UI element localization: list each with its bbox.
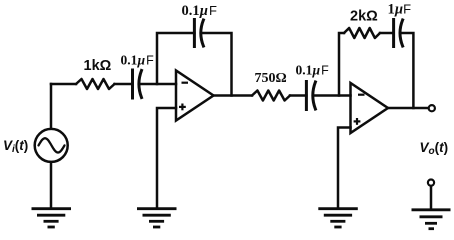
svg-text:1kΩ: 1kΩ xyxy=(84,58,112,74)
svg-text:2kΩ: 2kΩ xyxy=(350,9,378,25)
svg-text:1µF: 1µF xyxy=(388,2,412,18)
svg-text:750Ω: 750Ω xyxy=(255,71,287,86)
svg-text:0.1µF: 0.1µF xyxy=(296,63,330,78)
svg-text:0.1µF: 0.1µF xyxy=(182,3,217,19)
svg-text:0.1µF: 0.1µF xyxy=(121,53,155,68)
svg-text:Vi(t): Vi(t) xyxy=(3,138,28,155)
svg-text:Vo(t): Vo(t) xyxy=(420,140,449,157)
